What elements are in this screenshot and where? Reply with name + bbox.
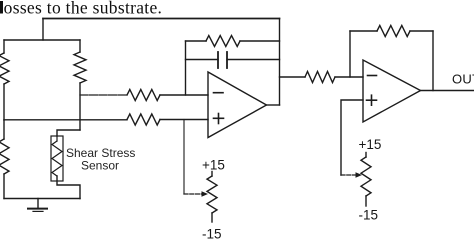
resistor: bridge upper-left — [0, 53, 9, 84]
wire: U1 output to bus — [267, 104, 280, 106]
wire: left branch to mid node — [3, 84, 5, 120]
U2 - pin — [368, 75, 377, 77]
wire: left mid node to + input resistor — [4, 119, 127, 121]
wire: + node down to pot1 wiper — [183, 120, 185, 195]
wire: vertical stub into bridge top — [42, 19, 44, 41]
label OUT — [452, 72, 474, 87]
svg-text:+15: +15 — [359, 137, 382, 152]
wire: left branch lower lead — [3, 120, 5, 139]
resistor: U2 input series — [305, 72, 335, 83]
wire: left branch top lead — [3, 40, 5, 53]
op-amp U1 — [208, 72, 267, 138]
wire: U2 + input L-wire to pot wiper — [341, 100, 363, 175]
U2 + pin — [367, 95, 377, 105]
label -15 (P1) — [202, 226, 222, 240]
wire: U2 output to OUT — [421, 90, 474, 92]
resistor: + input series — [127, 114, 160, 125]
U1 + pin — [214, 114, 224, 124]
resistor: bridge lower-left — [0, 139, 9, 174]
U1 - pin — [214, 92, 224, 94]
resistor: U1 feedback — [186, 36, 280, 47]
op-amp U2 — [363, 60, 421, 122]
wire: dashed wiper lead pot1 — [184, 193, 202, 195]
wire: sensor bottom jog to bottom rail — [57, 176, 80, 199]
wire: dashed wiper lead pot2 — [341, 174, 356, 176]
shear stress sensor box — [51, 136, 63, 181]
label +15 (P2) — [359, 137, 382, 152]
caption text "losses to the substrate." — [0, 0, 162, 18]
wiper arrow pot2 — [356, 172, 363, 178]
wire: bus to U2 input resistor — [280, 76, 306, 78]
label: Shear Stress Sensor — [66, 146, 135, 173]
wire: + input resistor to op-amp U1 — [160, 119, 208, 121]
wire: bottom rail — [4, 198, 80, 200]
wire: right branch mid node down to sensor jog — [79, 83, 81, 130]
svg-text:losses to the substrate.: losses to the substrate. — [0, 0, 162, 18]
wire: feedback left vertical — [185, 41, 187, 95]
resistor: shear stress sensor element — [52, 141, 62, 176]
wire: to U2 - input — [335, 76, 363, 78]
wire: jog to sensor top — [57, 130, 80, 136]
wiper arrow pot1 — [202, 191, 209, 197]
wire: right mid node to - input resistor — [80, 94, 127, 96]
svg-text:Sensor: Sensor — [81, 159, 119, 173]
resistor: - input series — [127, 90, 160, 101]
wire: top feedback from output bus to bridge top — [43, 18, 280, 20]
svg-text:-15: -15 — [202, 226, 222, 239]
potentiometer P2 — [361, 153, 371, 207]
resistor: bridge upper-right — [74, 52, 86, 83]
svg-text:+15: +15 — [202, 157, 225, 172]
svg-text:-15: -15 — [359, 207, 379, 222]
wire: U2 feedback left vertical — [349, 31, 351, 77]
wire: bridge top rail — [4, 39, 80, 41]
wire: output vertical bus — [279, 19, 281, 106]
label +15 (P1) — [202, 157, 225, 172]
potentiometer P1 — [207, 172, 217, 223]
svg-text:OUT: OUT — [452, 72, 474, 87]
wire: left branch to bottom rail — [3, 174, 5, 199]
wire: U2 feedback right vertical — [432, 31, 434, 91]
wire: - input resistor to summing node — [160, 94, 208, 96]
label -15 (P2) — [359, 207, 379, 222]
wire: right branch top lead — [79, 40, 81, 52]
resistor: U2 feedback — [350, 26, 433, 37]
ground symbol — [28, 199, 47, 212]
capacitor: U1 feedback — [186, 52, 280, 68]
